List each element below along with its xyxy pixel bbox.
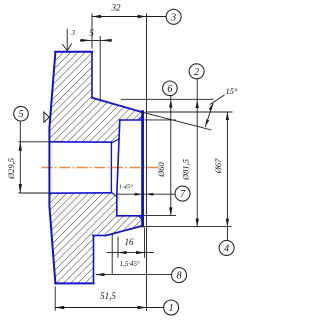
counterbore chamfer bottom bbox=[111, 192, 117, 196]
balloon 8 bbox=[172, 268, 187, 283]
dimension and extension lines (thin black) bbox=[19, 14, 233, 312]
32 arrows (inward) bbox=[92, 15, 101, 18]
dia60 arrows bbox=[169, 100, 172, 108]
counterbore wall bbox=[117, 120, 120, 216]
svg-text:1·45°: 1·45° bbox=[119, 183, 133, 190]
dim line 16 bbox=[107, 252, 155, 254]
counterbore chamfer top bbox=[111, 139, 119, 143]
leader 15deg text bbox=[210, 95, 225, 105]
left edge bbox=[49, 52, 55, 284]
1x45 opposing arrows bbox=[135, 193, 142, 196]
ext lines dia29.5 bbox=[19, 142, 50, 193]
16 arrows outside pointing in bbox=[118, 251, 127, 254]
taper extension line bbox=[143, 112, 212, 130]
balloon 2 bbox=[189, 64, 204, 79]
ledge bottom bbox=[93, 235, 106, 237]
ext line 5 right bbox=[99, 36, 101, 101]
dia81.5 dim line + balloon2 stem bbox=[196, 79, 198, 227]
hub face chamfer top bbox=[138, 116, 143, 120]
leader 1,5x45 to balloon 8 bbox=[96, 274, 172, 276]
top face bbox=[55, 51, 92, 53]
rim right edge top bbox=[91, 52, 93, 98]
balloon 6 bbox=[163, 81, 178, 96]
dim line dia29.5 bbox=[19, 142, 21, 193]
balloon digits bbox=[19, 12, 230, 314]
dia67 top ext bbox=[146, 111, 233, 113]
angular dim line 15deg bbox=[205, 103, 213, 127]
ext line 32 left bbox=[91, 14, 93, 49]
svg-text:3: 3 bbox=[170, 12, 176, 23]
balloon 3 bbox=[166, 9, 181, 24]
top taper (15 deg cone) bbox=[92, 98, 143, 113]
balloon 1 bbox=[164, 300, 179, 315]
svg-text:Ø81,5: Ø81,5 bbox=[181, 159, 191, 181]
svg-text:5: 5 bbox=[19, 109, 24, 120]
long right ext line (32 / 51,5) bbox=[146, 14, 148, 312]
hub end face bbox=[141, 112, 144, 226]
counterbore bottom wall bbox=[117, 215, 143, 217]
dia60 dim line + balloon6 stem bbox=[170, 96, 172, 216]
svg-text:1: 1 bbox=[169, 303, 174, 314]
svg-text:Ø60: Ø60 bbox=[156, 161, 166, 177]
check mark bbox=[62, 44, 71, 51]
svg-text:2: 2 bbox=[194, 67, 199, 78]
51,5 arrows inward bbox=[55, 306, 64, 309]
counterbore top wall bbox=[120, 119, 143, 121]
dia67 dim line + balloon4 stem bbox=[226, 112, 228, 240]
dia60 bottom ext bbox=[144, 214, 176, 216]
arrowheads bbox=[19, 15, 230, 309]
horizontal ext line (taper start level) bbox=[121, 98, 214, 100]
ext lines 16 bbox=[112, 228, 144, 274]
dia29.5 arrows bbox=[19, 142, 22, 151]
balloon 5 bbox=[14, 106, 29, 121]
svg-text:16: 16 bbox=[125, 237, 135, 247]
balloon circles bbox=[14, 9, 234, 315]
dia67 arrows bbox=[226, 112, 229, 120]
dim line 51,5 with leader to balloon 1 bbox=[55, 307, 164, 309]
dia81.5 arrows bbox=[196, 100, 199, 108]
dimension texts bbox=[89, 3, 134, 302]
balloon 7 bbox=[175, 186, 190, 201]
bore bottom wall bbox=[49, 192, 111, 194]
angular dim arrowheads bbox=[209, 103, 214, 111]
centerline (orange dash-dot axis) bbox=[42, 167, 159, 169]
ext line 51,5 left bbox=[54, 286, 56, 311]
roughness leader vertical bbox=[66, 29, 68, 51]
svg-text:1,5·45°: 1,5·45° bbox=[120, 260, 141, 268]
bore top wall bbox=[49, 141, 111, 143]
dim line 32 with leader to balloon 3 bbox=[92, 16, 166, 18]
part outline (blue) bbox=[49, 52, 142, 284]
svg-text:Ø67: Ø67 bbox=[213, 158, 223, 174]
svg-text:3: 3 bbox=[70, 29, 75, 37]
svg-text:32: 32 bbox=[111, 3, 122, 13]
hatch lower section region bbox=[49, 192, 142, 283]
bottom shared ext line bbox=[137, 226, 232, 228]
balloon 4 bbox=[219, 240, 234, 255]
step edge bottom bbox=[93, 236, 95, 284]
bore end face bbox=[110, 142, 112, 193]
chamfer 1x45 leader to balloon 7 bbox=[118, 193, 176, 195]
svg-text:5: 5 bbox=[89, 28, 94, 38]
5 arrows (outside pointing in) bbox=[81, 39, 93, 42]
dim line 5 bbox=[80, 39, 111, 41]
bottom taper bbox=[106, 226, 143, 236]
bottom face bbox=[55, 282, 93, 284]
hatch upper section region bbox=[49, 52, 142, 143]
dia60 top ext bbox=[145, 119, 177, 121]
svg-text:6: 6 bbox=[167, 84, 172, 95]
svg-text:15°: 15° bbox=[225, 86, 238, 96]
svg-text:Ø29,5: Ø29,5 bbox=[6, 158, 16, 180]
datum triangle bbox=[44, 112, 49, 122]
hub face chamfer bottom bbox=[138, 216, 142, 220]
svg-text:8: 8 bbox=[177, 271, 182, 282]
svg-text:4: 4 bbox=[224, 243, 229, 254]
balloon 5 stem bbox=[19, 121, 21, 142]
svg-text:51,5: 51,5 bbox=[100, 291, 116, 301]
1,5x45 leader arrow bbox=[96, 273, 105, 276]
